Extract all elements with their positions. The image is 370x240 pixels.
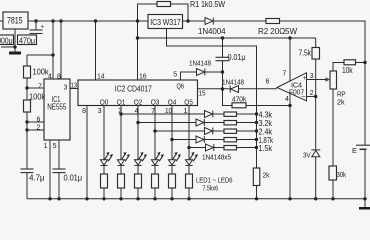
svg-text:6: 6 — [37, 117, 41, 124]
svg-text:Q5: Q5 — [184, 100, 193, 107]
svg-text:0.01μ: 0.01μ — [228, 53, 246, 62]
svg-text:7815: 7815 — [7, 16, 23, 27]
svg-text:IC2 CD4017: IC2 CD4017 — [115, 84, 153, 93]
svg-text:–: – — [302, 93, 306, 100]
svg-text:7: 7 — [38, 83, 42, 90]
svg-text:1N4148: 1N4148 — [222, 78, 244, 87]
svg-text:4: 4 — [285, 96, 289, 103]
svg-text:470μ: 470μ — [19, 36, 35, 45]
svg-text:1.5k: 1.5k — [259, 144, 273, 153]
svg-text:30k: 30k — [337, 170, 347, 179]
svg-text:+: + — [41, 25, 45, 31]
svg-text:3: 3 — [98, 108, 102, 115]
svg-text:IC3 W317: IC3 W317 — [150, 17, 181, 27]
svg-text:1N4148: 1N4148 — [189, 59, 211, 68]
svg-text:6: 6 — [266, 79, 270, 86]
svg-text:IC4: IC4 — [291, 82, 302, 89]
svg-text:Q2: Q2 — [134, 100, 143, 107]
svg-text:15: 15 — [199, 91, 206, 98]
svg-text:NE555: NE555 — [47, 102, 66, 112]
svg-text:7.5k: 7.5k — [299, 48, 312, 57]
svg-text:2k: 2k — [337, 98, 345, 107]
svg-text:8: 8 — [82, 108, 86, 115]
svg-text:2: 2 — [118, 108, 122, 115]
svg-text:14: 14 — [97, 73, 105, 80]
svg-text:Q4: Q4 — [168, 100, 177, 107]
svg-text:5: 5 — [53, 143, 57, 150]
svg-text:7.5kx6: 7.5kx6 — [203, 184, 219, 193]
svg-text:1: 1 — [44, 143, 48, 150]
svg-text:+: + — [303, 75, 307, 82]
svg-text:E: E — [352, 146, 357, 155]
svg-text:0.01μ: 0.01μ — [64, 174, 83, 183]
svg-text:8: 8 — [57, 74, 61, 81]
svg-text:3V: 3V — [303, 151, 311, 160]
svg-text:2: 2 — [37, 125, 41, 132]
svg-text:100k: 100k — [29, 92, 46, 101]
svg-text:Q0: Q0 — [100, 100, 109, 107]
svg-text:5: 5 — [173, 72, 177, 79]
svg-text:16: 16 — [139, 73, 147, 80]
svg-text:1N4148x5: 1N4148x5 — [202, 153, 231, 162]
svg-text:7: 7 — [151, 108, 155, 115]
svg-text:7: 7 — [283, 70, 287, 77]
svg-text:R1 1k0.5W: R1 1k0.5W — [190, 0, 225, 9]
svg-text:3: 3 — [64, 84, 68, 91]
svg-text:2: 2 — [310, 90, 314, 97]
svg-text:3: 3 — [310, 73, 314, 80]
svg-text:13: 13 — [71, 82, 78, 89]
svg-text:Q3: Q3 — [151, 100, 160, 107]
svg-text:2k: 2k — [263, 171, 270, 180]
svg-text:Q6: Q6 — [177, 83, 185, 90]
svg-text:1: 1 — [184, 108, 188, 115]
svg-text:1000μ: 1000μ — [0, 36, 13, 45]
svg-text:470k: 470k — [232, 95, 247, 104]
svg-text:100k: 100k — [33, 67, 50, 76]
svg-text:R2 20Ω5W: R2 20Ω5W — [258, 27, 298, 36]
svg-text:4.7μ: 4.7μ — [29, 174, 45, 183]
svg-text:10k: 10k — [342, 66, 353, 75]
svg-text:10: 10 — [165, 108, 172, 115]
svg-text:1N4004: 1N4004 — [198, 27, 226, 36]
svg-text:4: 4 — [135, 108, 139, 115]
svg-text:Q1: Q1 — [117, 100, 126, 107]
svg-text:4: 4 — [48, 74, 52, 81]
